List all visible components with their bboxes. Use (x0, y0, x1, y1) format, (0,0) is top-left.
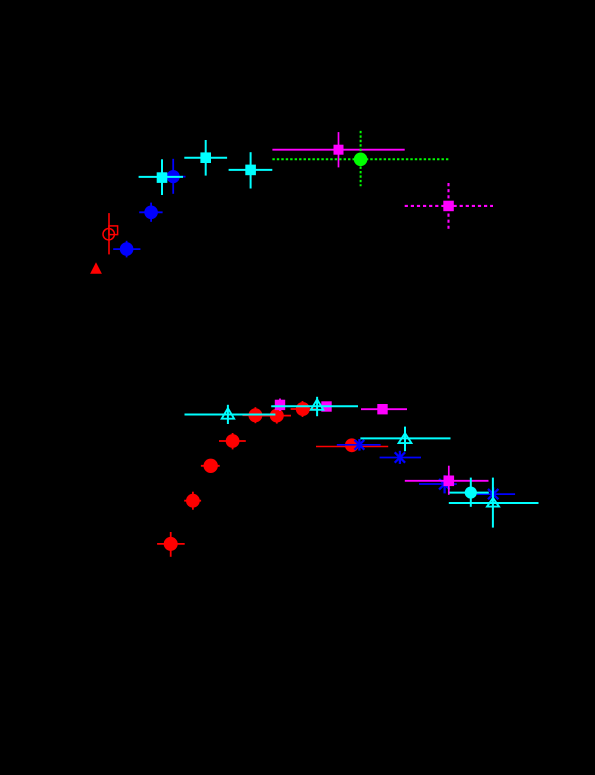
red circle b3 error bars (201, 465, 220, 467)
magenta square b1 vertical stub (279, 399, 281, 412)
magenta filled square point (448.5,205.9) (443, 201, 454, 212)
cyan triangle t4 error bars (449, 502, 539, 504)
blue point 2 error bars (139, 211, 162, 213)
blue filled circle point (173.4,177.5) (167, 170, 180, 183)
red filled triangle point (96,268.5) (90, 262, 102, 273)
red filled circle point (351.8,445.3) (345, 438, 359, 452)
red filled circle point (232.6,441) (226, 434, 240, 448)
red open square point (113.2,230.2) (109, 226, 118, 235)
red circle b4 error bars (219, 440, 246, 442)
cyan open triangle point (227.9,414.5) (222, 408, 234, 419)
red circle b8 error bar (316, 446, 388, 448)
cyan filled square point (162.3,178) (157, 172, 168, 183)
blue asterisk point (399.9,457.5) (395, 451, 405, 464)
red filled circle point (192.9,500.9) (186, 494, 200, 508)
blue asterisk b3 error bar (419, 483, 457, 485)
cyan open triangle point (405,438.4) (399, 433, 412, 443)
cyan open triangle point (493,503) (487, 498, 499, 507)
cyan filled square point (250.6,169.9) (245, 165, 256, 176)
blue asterisk b1 error bar (337, 444, 381, 446)
blue asterisk point (493.2,494.1) (488, 487, 498, 500)
red filled circle point (302.5,409) (296, 402, 310, 416)
red vertical error bar of open-circle point (108, 213, 110, 254)
cyan square 1 error bars (139, 176, 183, 178)
magenta square b3 error bar (361, 408, 407, 410)
cyan triangle t2 error bars (271, 405, 358, 407)
magenta solid error bars (272, 149, 404, 151)
red circle b7 error bars (291, 408, 317, 410)
cyan filled circle point (470.8,492.6) (465, 487, 477, 499)
cyan square 3 error bars (229, 169, 273, 171)
red circle b1 error bars (157, 543, 185, 545)
blue asterisk b2 error bar (380, 457, 421, 459)
blue asterisk point (359.4,444.8) (355, 439, 365, 451)
magenta dashed error bars (405, 205, 493, 207)
red circle b2 error bars (184, 500, 201, 502)
blue filled circle point (126.6,249.1) (120, 242, 134, 256)
blue point 3 error bars (161, 176, 186, 178)
magenta filled square point (326.5,406.5) (321, 401, 331, 411)
magenta square b4 error bars (405, 480, 489, 482)
blue point 1 error bars (113, 248, 140, 250)
blue filled circle point (151.1,212.3) (144, 206, 158, 220)
green filled circle point (360.6,159.3) (354, 153, 368, 167)
blue asterisk point (444.4,484.2) (439, 475, 450, 493)
red filled circle point (170.6,544) (164, 537, 178, 551)
cyan circle error bars (450, 492, 489, 494)
magenta filled square point (382.5,409.2) (377, 404, 387, 414)
green dotted error bars (272, 158, 448, 160)
magenta filled square point (448.8,480.8) (444, 476, 455, 487)
red open circle point (108.7,234.2) (103, 229, 114, 240)
cyan open triangle point (317.1,406.3) (311, 399, 323, 409)
blue asterisk b4 error bar (477, 493, 515, 495)
magenta filled square point (280,404.9) (275, 400, 285, 410)
red circle b5 error bars (243, 414, 272, 416)
red filled circle point (210.6,465.8) (204, 459, 218, 473)
magenta filled square point (338.5,149.7) (334, 145, 344, 155)
red filled circle point (255.4,415.2) (248, 408, 262, 422)
cyan triangle t1 error bars (185, 414, 276, 416)
cyan triangle t3 error bars (360, 437, 450, 439)
cyan filled square point (205.7,157.7) (200, 152, 211, 163)
red filled circle point (276.8,415.6) (270, 409, 284, 423)
red circle b6 error bars (262, 415, 291, 417)
cyan square 2 error bars (184, 157, 227, 159)
